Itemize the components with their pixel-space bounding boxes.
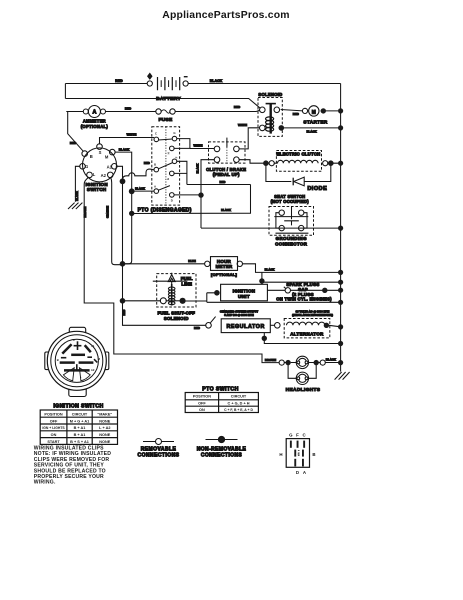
- wire ignition A1 down to regulator: [117, 166, 207, 325]
- wire spark plug row: [267, 289, 340, 291]
- wire headlight lamp2 loop: [288, 363, 316, 379]
- svg-text:WIRING.: WIRING.: [34, 480, 56, 486]
- wire ignition G to ground: [75, 166, 80, 202]
- wire left corner vertical: [64, 84, 66, 99]
- wire clutch bottom-left down: [201, 160, 215, 228]
- seat switch / grounding connector: [269, 194, 314, 247]
- svg-text:RED: RED: [234, 105, 241, 109]
- svg-text:M: M: [105, 155, 109, 160]
- svg-text:M + G + A1: M + G + A1: [70, 419, 89, 423]
- wire ammeter drop to ignition B: [68, 112, 84, 152]
- regulator: [206, 309, 271, 332]
- svg-text:BLACK: BLACK: [306, 129, 317, 133]
- wire PTO F E branch: [174, 161, 187, 184]
- ground right bus: [335, 372, 350, 380]
- svg-text:A: A: [92, 110, 96, 116]
- svg-text:SOLENOID: SOLENOID: [258, 92, 282, 97]
- svg-text:AppliancePartsPros.com: AppliancePartsPros.com: [162, 10, 289, 21]
- svg-text:PTO SWITCH: PTO SWITCH: [202, 387, 238, 393]
- fuel shut-off solenoid: [153, 273, 196, 321]
- svg-text:CHARGING SYSTEM OUTPUT: CHARGING SYSTEM OUTPUT: [220, 309, 259, 313]
- svg-text:STARTER: STARTER: [303, 119, 328, 124]
- svg-text:RED: RED: [125, 107, 132, 111]
- svg-text:CIRCUIT: CIRCUIT: [231, 395, 247, 399]
- wire ignition A2 orange down: [111, 177, 123, 265]
- svg-text:(REGULATOR DISCONNECTED): (REGULATOR DISCONNECTED): [292, 313, 333, 317]
- wire regulator bottom to bus: [264, 333, 340, 344]
- svg-text:IGNITION SWITCH: IGNITION SWITCH: [53, 403, 103, 409]
- alternator: [275, 309, 334, 338]
- wire clutch top-right white to solenoid: [239, 128, 260, 149]
- wire PTO B red with hops: [123, 169, 155, 181]
- svg-text:WHITE: WHITE: [193, 144, 202, 148]
- fuse F1: [156, 109, 175, 123]
- svg-text:H: H: [166, 152, 170, 154]
- wire ignition M black down: [115, 152, 132, 264]
- svg-text:BLACK: BLACK: [265, 268, 275, 272]
- wire fuel row right under ignition unit to bus: [185, 293, 341, 303]
- svg-text:FUEL SHUT-OFF: FUEL SHUT-OFF: [157, 311, 195, 316]
- wire regulator pointer: [210, 317, 215, 323]
- svg-text:LINE: LINE: [181, 281, 192, 286]
- hour meter (optional): [205, 257, 243, 277]
- clutch/brake switch (pedal up): [206, 138, 246, 177]
- svg-text:B: B: [312, 452, 315, 457]
- svg-text:B: B: [90, 154, 93, 159]
- wire solenoid coil black to bus: [283, 127, 340, 129]
- svg-text:RED: RED: [194, 326, 200, 330]
- svg-text:ORANGE: ORANGE: [105, 206, 109, 218]
- svg-text:BATTERY: BATTERY: [156, 96, 181, 102]
- svg-text:NONE: NONE: [99, 419, 110, 423]
- svg-text:HEADLIGHTS: HEADLIGHTS: [286, 387, 321, 393]
- svg-text:RED: RED: [70, 141, 77, 145]
- svg-text:BLACK: BLACK: [75, 191, 79, 201]
- svg-text:A1: A1: [107, 164, 113, 169]
- svg-text:D: D: [296, 470, 299, 475]
- svg-text:DIODE: DIODE: [307, 186, 327, 192]
- svg-text:BROWN: BROWN: [83, 207, 87, 218]
- svg-text:UNIT: UNIT: [238, 294, 250, 299]
- right bus: [340, 84, 342, 372]
- legend non-removable connections: [197, 436, 247, 458]
- svg-text:C: C: [155, 132, 158, 136]
- svg-text:SOLENOID: SOLENOID: [164, 316, 189, 321]
- wire ignition S white to PTO C: [100, 138, 155, 145]
- svg-text:WHITE: WHITE: [238, 123, 247, 127]
- svg-text:POSITION: POSITION: [44, 412, 62, 416]
- svg-text:NONE: NONE: [99, 433, 110, 437]
- wire hour meter right to bus black: [242, 264, 341, 273]
- svg-text:CONNECTOR: CONNECTOR: [275, 242, 308, 247]
- svg-text:36 VOLTS AC @ 3600 RPM: 36 VOLTS AC @ 3600 RPM: [296, 309, 331, 313]
- svg-text:REGULATOR: REGULATOR: [226, 324, 264, 330]
- svg-text:WHITE: WHITE: [127, 132, 137, 136]
- svg-text:B + S + A1: B + S + A1: [70, 440, 89, 444]
- pin connector key: [279, 433, 315, 475]
- svg-text:G: G: [85, 164, 88, 169]
- svg-text:METER: METER: [216, 264, 233, 269]
- wire PTO D to junction: [174, 194, 201, 196]
- svg-text:BLACK: BLACK: [135, 186, 145, 190]
- svg-text:ON TWIN CYL. ENGINES): ON TWIN CYL. ENGINES): [276, 297, 332, 302]
- svg-text:RED: RED: [122, 310, 126, 316]
- battery B1: [147, 73, 188, 101]
- svg-text:B: B: [154, 163, 156, 167]
- svg-text:PTO (DISENGAGED): PTO (DISENGAGED): [138, 207, 192, 213]
- svg-text:B: B: [57, 358, 59, 362]
- ammeter A1 (optional): [66, 106, 156, 130]
- svg-text:A2: A2: [91, 368, 95, 372]
- svg-text:(OPTIONAL): (OPTIONAL): [81, 124, 109, 129]
- svg-text:BLACK: BLACK: [210, 79, 223, 83]
- svg-text:D: D: [171, 198, 173, 202]
- solenoid: [258, 92, 283, 137]
- PTO switch (disengaged): [138, 127, 192, 214]
- wire grounding row: [201, 227, 341, 229]
- wire fuel row left: [123, 300, 162, 302]
- wire upper horizontal to solenoid: [65, 99, 260, 109]
- wire clutch bottom-right to electric clutch: [239, 160, 264, 164]
- ignition switch: [80, 144, 117, 192]
- svg-text:BLACK: BLACK: [195, 164, 199, 174]
- svg-text:FUSE: FUSE: [159, 117, 173, 123]
- svg-text:C + G, D + H: C + G, D + H: [228, 402, 250, 406]
- svg-text:NONE: NONE: [99, 440, 110, 444]
- electric clutch: [269, 151, 328, 172]
- svg-text:POSITION: POSITION: [193, 395, 211, 399]
- svg-text:BROWN: BROWN: [265, 358, 276, 362]
- svg-text:5 AMP DC @ 3600 RPM: 5 AMP DC @ 3600 RPM: [224, 313, 254, 317]
- wire hour meter row: [123, 263, 206, 265]
- wire ignition L brown to headlights: [84, 177, 279, 363]
- ignition switch table: [40, 403, 117, 444]
- svg-text:(PEDAL UP): (PEDAL UP): [213, 172, 240, 177]
- wire regulator to alternator: [270, 324, 275, 326]
- svg-text:SWITCH: SWITCH: [87, 187, 107, 192]
- wire battery left red: [65, 83, 147, 85]
- svg-text:OFF: OFF: [198, 402, 206, 406]
- svg-text:S: S: [73, 338, 75, 342]
- svg-text:START: START: [47, 440, 60, 444]
- svg-text:L + A2: L + A2: [99, 426, 110, 430]
- svg-text:RED: RED: [220, 180, 226, 184]
- svg-text:AMMETER: AMMETER: [83, 119, 106, 124]
- svg-text:C: C: [303, 433, 307, 438]
- svg-text:A: A: [303, 470, 307, 475]
- wire ignition unit top to bus: [262, 281, 341, 283]
- wire ignition unit top stem: [261, 272, 263, 284]
- wire electric clutch to bus: [268, 162, 340, 164]
- svg-text:BLACK: BLACK: [119, 147, 130, 151]
- svg-text:L: L: [93, 172, 96, 177]
- svg-text:BLACK: BLACK: [221, 208, 231, 212]
- svg-text:ON: ON: [199, 408, 205, 412]
- svg-text:"MAKE": "MAKE": [97, 412, 112, 416]
- svg-text:G: G: [289, 433, 293, 438]
- spark plugs: [276, 282, 332, 301]
- svg-text:CONNECTIONS: CONNECTIONS: [201, 452, 243, 458]
- PTO switch table: [185, 387, 258, 413]
- wire PTO A black: [132, 190, 154, 192]
- svg-text:RED: RED: [293, 112, 299, 116]
- wiring insulated clips note: [34, 445, 111, 485]
- svg-text:ON: ON: [51, 433, 57, 437]
- svg-text:A1: A1: [91, 344, 95, 348]
- diode D1 loop: [266, 165, 331, 181]
- wire alternator to bus: [329, 325, 341, 327]
- svg-text:C + F, B + E, A + D: C + F, B + E, A + D: [224, 408, 253, 412]
- wire loop V1 and H2 black: [132, 185, 251, 214]
- svg-text:G: G: [63, 351, 65, 355]
- svg-text:G: G: [173, 131, 176, 135]
- legend removable connections: [138, 439, 180, 459]
- svg-text:A: A: [154, 184, 157, 188]
- svg-text:BLACK: BLACK: [326, 358, 337, 362]
- wire headlights row: [284, 362, 340, 364]
- wire battery right black: [188, 83, 341, 85]
- svg-text:F: F: [296, 433, 299, 438]
- wire PTO G white to clutch: [174, 139, 215, 149]
- key connector plug: [45, 327, 109, 396]
- svg-text:IGNITION: IGNITION: [233, 288, 256, 293]
- svg-text:IGN + LIGHTS: IGN + LIGHTS: [42, 426, 65, 430]
- svg-text:BLUE: BLUE: [188, 259, 196, 263]
- svg-text:F: F: [175, 156, 179, 158]
- svg-text:ELECTRIC CLUTCH: ELECTRIC CLUTCH: [277, 151, 321, 156]
- svg-text:IGNITION: IGNITION: [85, 182, 107, 187]
- wire red loop H1: [187, 184, 251, 186]
- svg-text:(NOT OCCUPIED): (NOT OCCUPIED): [271, 199, 310, 204]
- ground ignition: [68, 203, 82, 209]
- svg-text:OFF: OFF: [50, 419, 58, 423]
- svg-text:ALTERNATOR: ALTERNATOR: [290, 331, 324, 336]
- svg-text:H: H: [279, 452, 282, 457]
- svg-text:B + A1: B + A1: [74, 433, 86, 437]
- svg-text:[OPTIONAL]: [OPTIONAL]: [211, 272, 238, 277]
- svg-text:HOUR: HOUR: [217, 259, 232, 264]
- svg-text:GROUNDING: GROUNDING: [276, 236, 308, 241]
- svg-text:CIRCUIT: CIRCUIT: [72, 412, 88, 416]
- starter M1: [281, 106, 338, 125]
- svg-text:CONNECTIONS: CONNECTIONS: [138, 452, 180, 458]
- svg-text:B + A1: B + A1: [74, 426, 86, 430]
- ignition unit: [221, 284, 268, 301]
- svg-text:E: E: [298, 452, 301, 456]
- svg-text:A2: A2: [101, 173, 107, 178]
- svg-text:E: E: [166, 178, 170, 180]
- junction dots: [120, 108, 344, 365]
- headlights: [279, 356, 325, 393]
- svg-text:S: S: [99, 150, 102, 155]
- svg-text:RED: RED: [144, 161, 150, 165]
- wire fuse to solenoid red: [175, 110, 260, 111]
- svg-text:RED: RED: [115, 79, 123, 83]
